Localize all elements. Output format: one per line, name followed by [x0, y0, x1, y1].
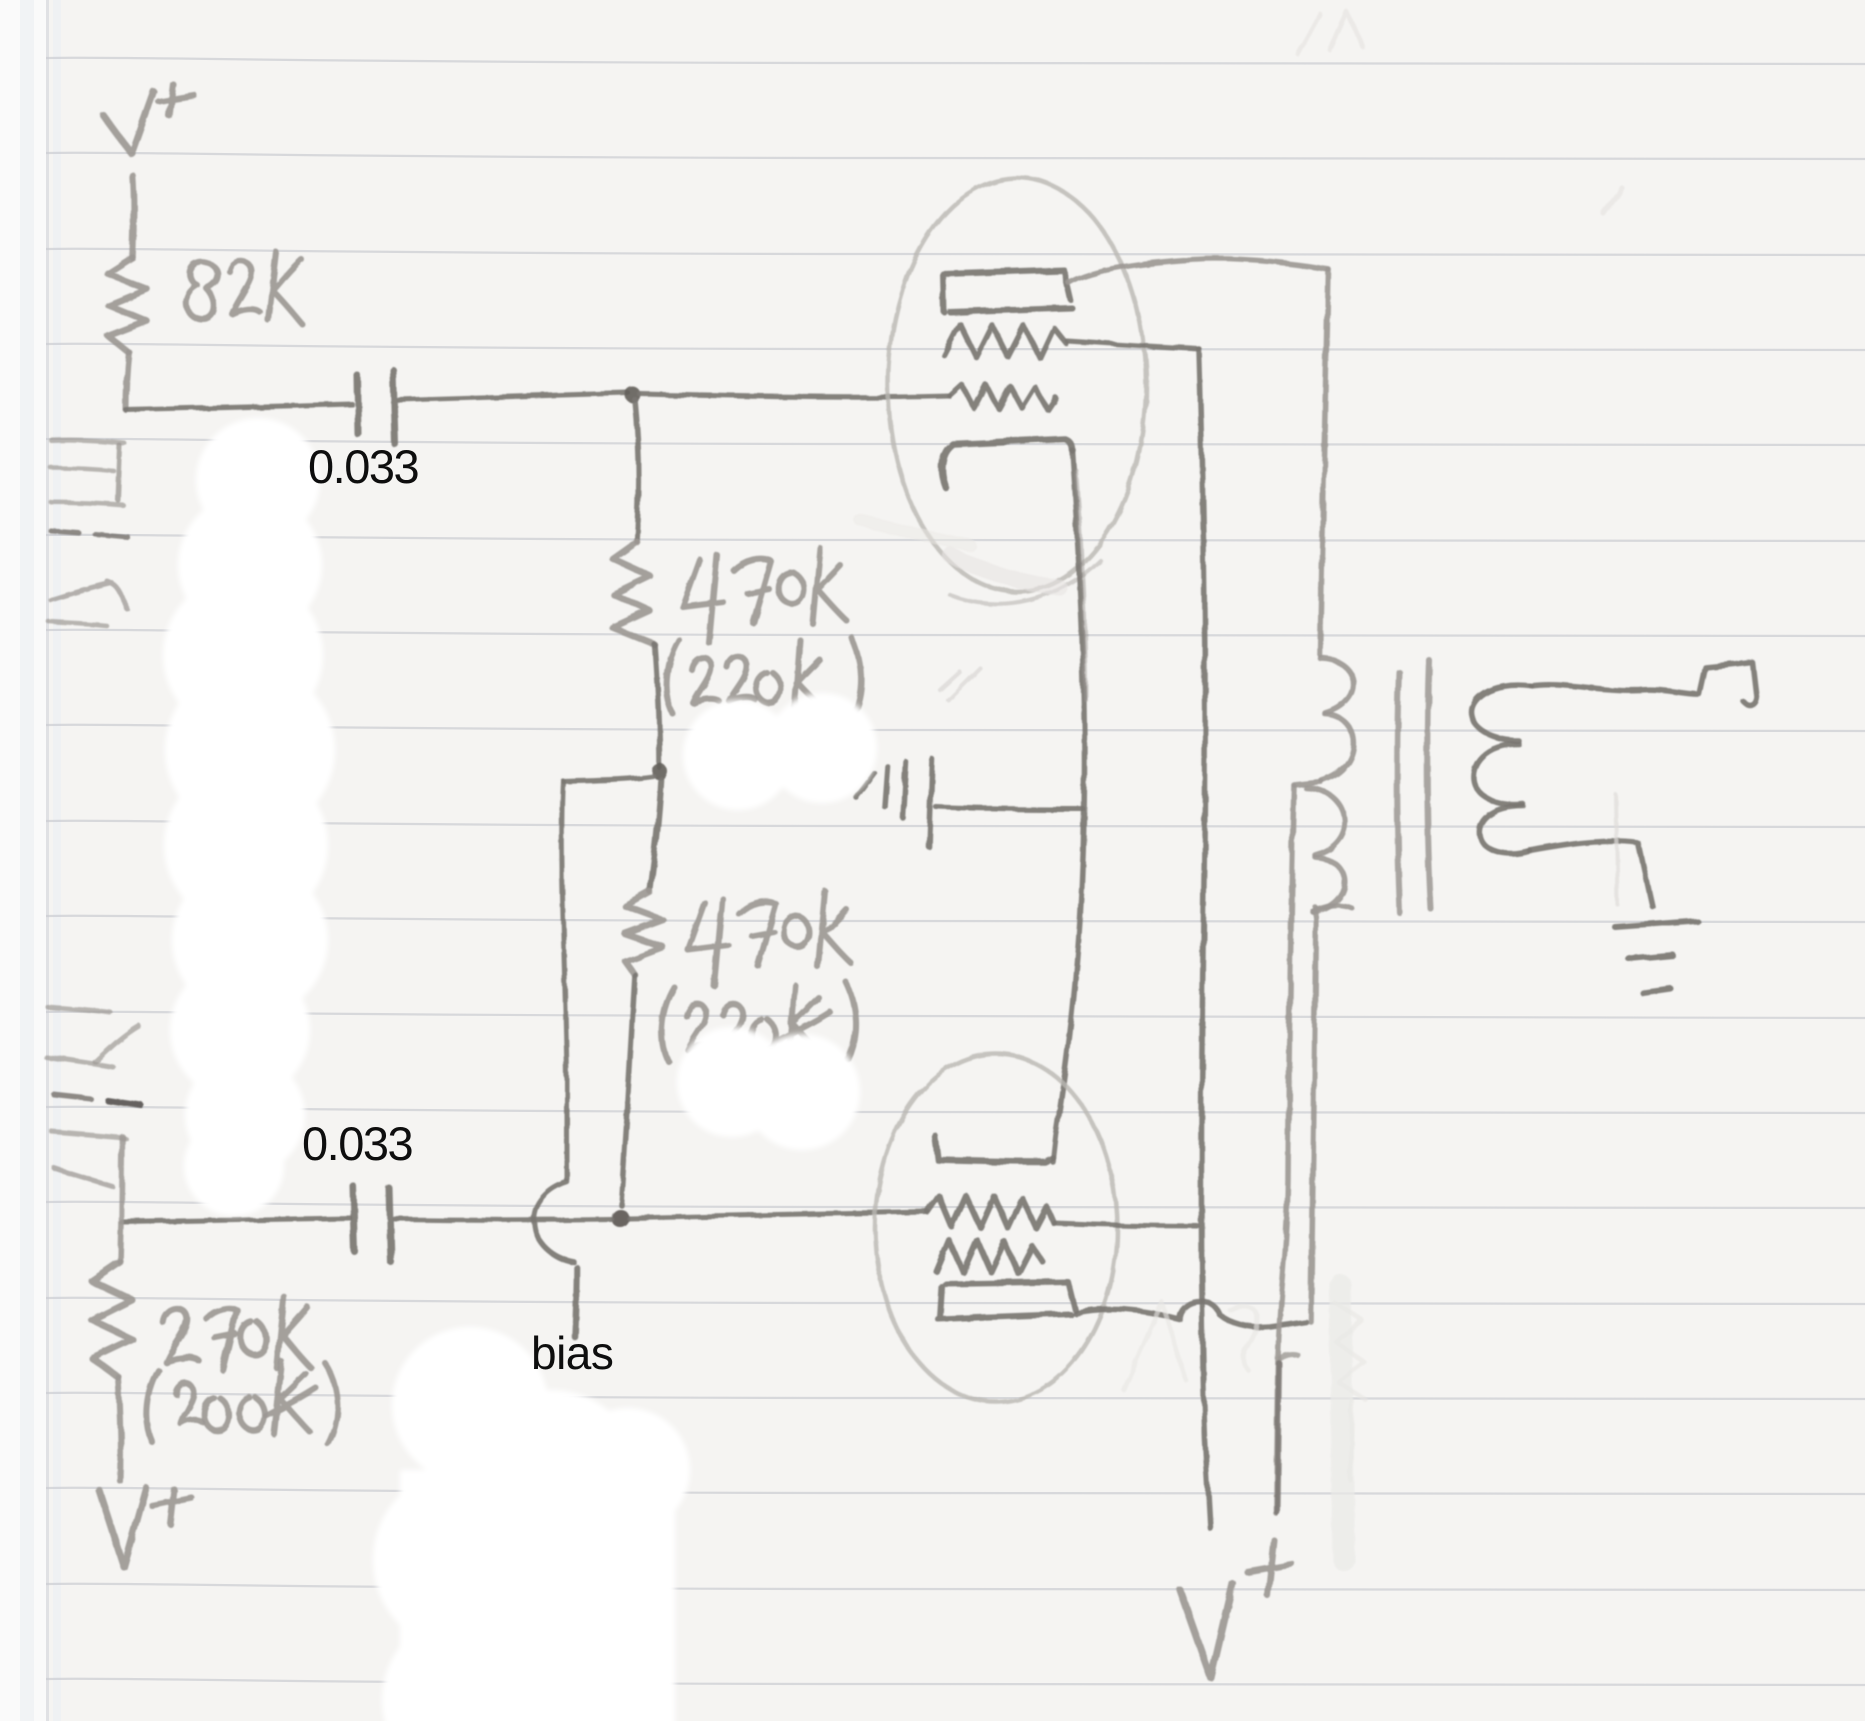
wire V+ to R1	[133, 176, 134, 258]
node B junction	[652, 764, 668, 780]
transformer T1 core	[1397, 672, 1400, 913]
wire R2 to node B	[655, 645, 660, 768]
resistor R4 270K	[92, 1262, 132, 1377]
label R1 value 82K	[186, 262, 218, 319]
white-out blob bottom	[392, 1327, 548, 1483]
ground symbol	[1615, 921, 1697, 927]
capacitor C1 0.033	[358, 376, 359, 435]
wire node A to V1 control grid	[640, 394, 950, 397]
cathode rail V1 to V2	[1053, 450, 1085, 1162]
wire node B down to R3	[650, 780, 661, 892]
battery bias cell	[856, 773, 874, 797]
resistor R1 82K	[108, 258, 147, 352]
wire R3 to node C	[621, 975, 635, 1205]
resistor R2 470k	[613, 542, 655, 645]
erased ghost marks	[1298, 12, 1362, 54]
white-out blob lower mid	[677, 1027, 787, 1137]
wire C2 to node C	[395, 1217, 611, 1223]
node C junction	[611, 1209, 629, 1227]
tube V2 envelope	[875, 1054, 1117, 1402]
label R3 value 470k	[688, 898, 728, 986]
wire V1 screen to rail	[1067, 341, 1199, 349]
wire R4 to V+ bottom left	[118, 1377, 120, 1481]
bias line crossover hop	[534, 1182, 574, 1262]
label R3 alt value (220K)	[662, 987, 674, 1061]
transformer T1 primary	[1320, 658, 1353, 713]
svg-text:0.033: 0.033	[308, 440, 418, 493]
label R2 value 470k	[683, 555, 723, 643]
wire node C to V2 control grid	[629, 1212, 928, 1218]
node V+ (top left)	[103, 91, 153, 153]
white-out column top-left	[196, 418, 320, 542]
label R4 value 270K	[163, 1309, 198, 1362]
node A junction	[625, 387, 641, 403]
eraser smudges	[950, 555, 1060, 588]
tube V2 control grid	[928, 1196, 1054, 1228]
wire V2 grid to rail	[1054, 1223, 1197, 1226]
erased input jack marks	[52, 441, 125, 444]
wire secondary top lead	[1531, 662, 1756, 704]
screen rail to V+ bottom	[1199, 349, 1210, 1528]
svg-text:bias: bias	[531, 1327, 613, 1379]
tube V1 cathode	[942, 439, 1072, 488]
tube V2 plate	[938, 1282, 1075, 1319]
wire node B to bias line	[563, 776, 653, 781]
wire node A down to R2	[635, 400, 639, 542]
svg-text:0.033: 0.033	[302, 1117, 412, 1170]
bias stub wire	[575, 1268, 577, 1337]
transformer T1 secondary	[1472, 685, 1531, 741]
wire C2 node to R4	[120, 1222, 121, 1262]
wire secondary bottom lead	[1530, 841, 1652, 906]
resistor R3 470k	[625, 892, 663, 975]
label R4 alt value (200K)	[146, 1370, 158, 1442]
label R2 alt value (220k)	[667, 640, 679, 714]
bottom wire R4 to C2	[122, 1218, 350, 1222]
tube V1 envelope	[888, 178, 1146, 592]
tube V1 screen grid	[944, 324, 1066, 358]
white-out blob mid right	[683, 700, 793, 810]
erased marks bottom left margin	[48, 1007, 111, 1013]
tube V2 cathode	[935, 1136, 1053, 1162]
node V+ (bottom left)	[99, 1488, 146, 1567]
wire V1 plate to T1	[1069, 259, 1328, 283]
node V+ (bottom center)	[1180, 1584, 1233, 1678]
tube V1 control grid	[950, 385, 1056, 410]
tube V2 screen grid	[936, 1240, 1043, 1274]
wire battery to cathode rail	[936, 807, 1083, 809]
wire center tap to V+	[1276, 786, 1294, 1513]
wire C1 to node A	[399, 393, 628, 400]
tube V1 plate	[943, 270, 1072, 312]
wire R1 to C1	[126, 352, 129, 410]
wire V2 plate to T1 with hop	[1075, 1301, 1306, 1327]
capacitor C2 0.033	[353, 1186, 355, 1252]
